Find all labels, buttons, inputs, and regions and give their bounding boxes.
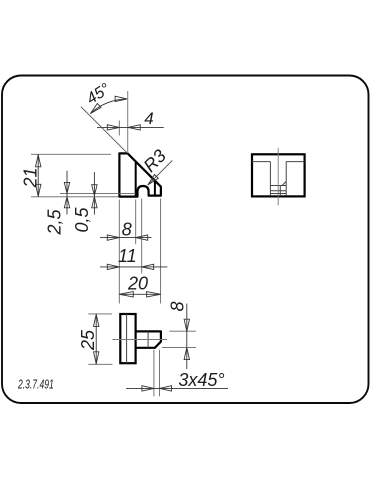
dim 8 right ext bottom	[162, 347, 196, 349]
side view tongue edge right	[285, 162, 287, 196]
dim 4 ext line right (long vertical)	[127, 91, 129, 153]
svg-text:0,5: 0,5	[72, 207, 92, 233]
side view outer rect	[252, 154, 305, 196]
dim 3x45 line	[126, 387, 228, 389]
bottom view arm outline	[136, 331, 161, 347]
dim 11 line	[100, 266, 167, 268]
svg-text:3x45°: 3x45°	[178, 370, 224, 390]
svg-text:2,5: 2,5	[45, 209, 65, 236]
dim 11 arrow right-pointing	[107, 264, 119, 269]
dim 21 arrow down	[36, 184, 41, 196]
ext line x=135.7 below view	[135, 200, 137, 245]
dim 20 arrow right tip	[147, 292, 161, 297]
dim 3x45 ext right	[159, 350, 161, 397]
dim 21 line	[37, 154, 39, 197]
dim 3x45 arrow left-pointing	[160, 386, 172, 391]
side view chamfer edge	[282, 181, 286, 185]
bottom view bar inner line	[126, 314, 128, 363]
side view groove line 3	[270, 193, 286, 195]
dim 0,5 line	[93, 172, 95, 215]
slope extension line for 45 deg	[81, 107, 128, 154]
bottom view arm inner line	[147, 331, 149, 347]
ext line x=141 below view	[141, 199, 143, 274]
svg-text:45°: 45°	[84, 80, 114, 108]
svg-text:20: 20	[127, 273, 148, 293]
dim 20 arrow left tip	[119, 292, 133, 297]
45 arc arrow at slope end	[90, 104, 101, 114]
dim 25 ext bottom	[88, 363, 112, 365]
side view ledge line right	[286, 161, 304, 163]
dim 4 arrow right-pointing	[107, 125, 119, 130]
dim 2,5 extension line	[60, 192, 136, 194]
45 deg dimension arc	[90, 99, 127, 114]
dim 4 ext line left (short)	[118, 121, 120, 136]
svg-text:4: 4	[144, 109, 153, 128]
dim 2,5 arrow down	[64, 182, 69, 193]
svg-text:8: 8	[168, 301, 188, 311]
dim 4 line	[97, 126, 164, 128]
dim 3x45 arrow right-pointing	[142, 386, 154, 391]
dim 25 arrow down	[94, 352, 99, 364]
dim 8 right arrow up	[184, 348, 189, 360]
dim 20 line	[119, 293, 160, 295]
dim 0,5 arrow down	[92, 185, 97, 196]
dim 8 line (horizontal)	[100, 237, 152, 239]
side view tongue edge left	[269, 162, 271, 196]
dim 2,5 line	[66, 171, 68, 215]
ext line x=160.6 below view	[160, 199, 162, 304]
border frame	[2, 76, 369, 404]
bottom view centerline	[112, 339, 167, 341]
dim 11 arrow left-pointing	[142, 264, 154, 269]
svg-text:2.3.7.491: 2.3.7.491	[17, 378, 54, 392]
svg-text:25: 25	[78, 329, 98, 351]
dim 8 right line	[186, 304, 188, 370]
svg-text:11: 11	[118, 246, 137, 266]
dim 8 right ext top	[169, 330, 196, 332]
dim 21 extension bottom (long)	[31, 196, 119, 198]
bottom view bar outline	[120, 314, 135, 363]
dim 21 arrow up	[36, 155, 41, 167]
part outline front view	[119, 153, 160, 196]
dim 2,5 arrow up	[64, 197, 69, 208]
side view ledge line left	[252, 161, 270, 163]
dim 25 ext top	[88, 313, 112, 315]
side view groove line 2	[270, 190, 286, 192]
dim 4 arrow left-pointing	[128, 125, 140, 130]
side view foot edge	[279, 186, 281, 196]
svg-text:8: 8	[122, 219, 132, 239]
dim 25 arrow up	[94, 314, 99, 326]
side view centerline	[277, 148, 279, 206]
side view groove line 1	[270, 185, 286, 187]
45 arc arrow at vertical end	[115, 96, 127, 101]
dim 25 line	[95, 314, 97, 364]
dim 8 arrow right-pointing	[107, 235, 119, 240]
inner edge right of tongue	[154, 181, 156, 195]
dim 21 extension top	[31, 153, 111, 155]
dim 8 right arrow down	[184, 319, 189, 331]
dim 0,5 arrow up	[92, 197, 97, 208]
dim 3x45 ext left	[153, 350, 155, 397]
R3 leader line	[148, 161, 172, 185]
svg-text:21: 21	[21, 167, 41, 188]
ext line x=119.3 below view	[118, 200, 120, 304]
dim 8 arrow left-pointing	[136, 235, 148, 240]
R3 leader arrow	[148, 175, 158, 185]
inner edge left of tongue	[135, 162, 137, 197]
